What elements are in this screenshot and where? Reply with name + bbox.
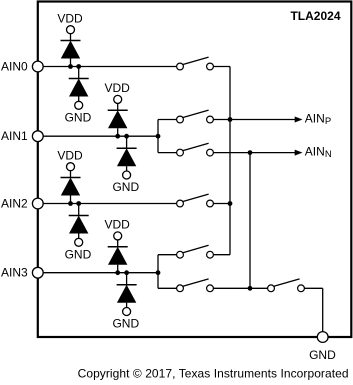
wire AIN1 to switch S3 (158, 152, 177, 154)
diode AIN0 to VDD (57, 12, 83, 69)
switch S2 (AIN1 to AINP bus) (177, 110, 214, 123)
arrow AINN (295, 150, 303, 156)
switch S4 (AIN2 to AINP bus) (177, 194, 214, 207)
wire AIN0 to switch S1 (43, 66, 176, 68)
svg-text:TLA2024: TLA2024 (290, 9, 340, 23)
diode AIN3 to VDD (105, 218, 131, 275)
switch S6 (AIN3 to AINN bus) (177, 279, 214, 292)
svg-text:GND: GND (112, 317, 139, 331)
wire AIN3 branch vertical (157, 255, 159, 289)
node AINP bus junction at S4 (228, 201, 233, 206)
wire S7 to GND pin (304, 287, 322, 289)
wire AIN1 to switch S2 (158, 119, 177, 121)
wire AIN3 to switch S6 (158, 287, 177, 289)
pin AIN1 terminal (32, 131, 43, 142)
pin GND label (309, 348, 336, 362)
wire S1 to AINP bus (213, 66, 230, 68)
pin AIN3 terminal (32, 267, 43, 278)
svg-text:AIN1: AIN1 (1, 129, 28, 143)
pin AIN0 terminal (32, 61, 43, 72)
wire AINP bus vertical (229, 67, 231, 255)
diode GND to AIN0 (65, 64, 92, 124)
wire AIN1 branch vertical (157, 120, 159, 153)
node AINN bus junction at S6 (248, 286, 253, 291)
wire AIN3 to switch S5 (158, 254, 177, 256)
device outline box TLA2024 (38, 2, 352, 338)
wire S4 to AINP bus (213, 203, 230, 205)
svg-text:VDD: VDD (105, 81, 131, 95)
node AINN bus junction at S3 (248, 150, 253, 155)
node AIN3 branch junction (156, 270, 161, 275)
svg-text:VDD: VDD (57, 12, 83, 26)
svg-text:GND: GND (112, 180, 139, 194)
switch S3 (AIN1 to AINN bus) (177, 143, 214, 156)
wire AIN2 to switch S4 (43, 203, 176, 205)
label TLA2024 (290, 9, 340, 23)
pin AIN1 label (1, 129, 28, 143)
svg-text:AIN0: AIN0 (1, 60, 28, 74)
diode AIN2 to VDD (57, 149, 83, 206)
wire S6 to AINN bus (213, 287, 250, 289)
diode GND to AIN2 (65, 201, 92, 261)
diode GND to AIN1 (112, 134, 139, 194)
svg-text:GND: GND (65, 111, 92, 125)
wire AINP output (230, 119, 296, 121)
wire S5 to AINP bus (213, 254, 230, 256)
wire AINN bus vertical (249, 153, 251, 289)
node AIN1 branch junction (156, 134, 161, 139)
label AINN (305, 145, 332, 161)
pin AIN3 label (1, 266, 28, 280)
switch S7 (AINN bus to GND) (268, 279, 305, 292)
svg-text:GND: GND (309, 348, 336, 362)
label AINP (305, 112, 331, 128)
svg-text:VDD: VDD (105, 218, 131, 232)
wire AIN1 horizontal (43, 135, 158, 137)
pin AIN2 terminal (32, 198, 43, 209)
switch S5 (AIN3 to AINP bus) (177, 245, 214, 258)
node AINP bus junction at S2 (228, 117, 233, 122)
svg-text:AIN3: AIN3 (1, 266, 28, 280)
svg-text:GND: GND (65, 248, 92, 262)
diode GND to AIN3 (112, 270, 139, 330)
copyright notice (78, 366, 349, 380)
wire AINN output (250, 152, 296, 154)
switch S1 (AIN0 to AINP bus) (177, 57, 214, 70)
diode AIN1 to VDD (105, 81, 131, 138)
wire S2 to AINP bus (213, 119, 230, 121)
pin GND terminal (317, 332, 328, 343)
wire GND pin vertical (322, 288, 324, 331)
arrow AINP (295, 117, 303, 123)
svg-text:AIN2: AIN2 (1, 197, 28, 211)
wire AINN bus to switch S7 (250, 287, 268, 289)
wire S3 to AINN bus (213, 152, 250, 154)
svg-text:VDD: VDD (57, 149, 83, 163)
pin AIN0 label (1, 60, 28, 74)
svg-text:Copyright © 2017, Texas Instru: Copyright © 2017, Texas Instruments Inco… (78, 366, 349, 380)
pin AIN2 label (1, 197, 28, 211)
wire AIN3 horizontal (43, 272, 158, 274)
